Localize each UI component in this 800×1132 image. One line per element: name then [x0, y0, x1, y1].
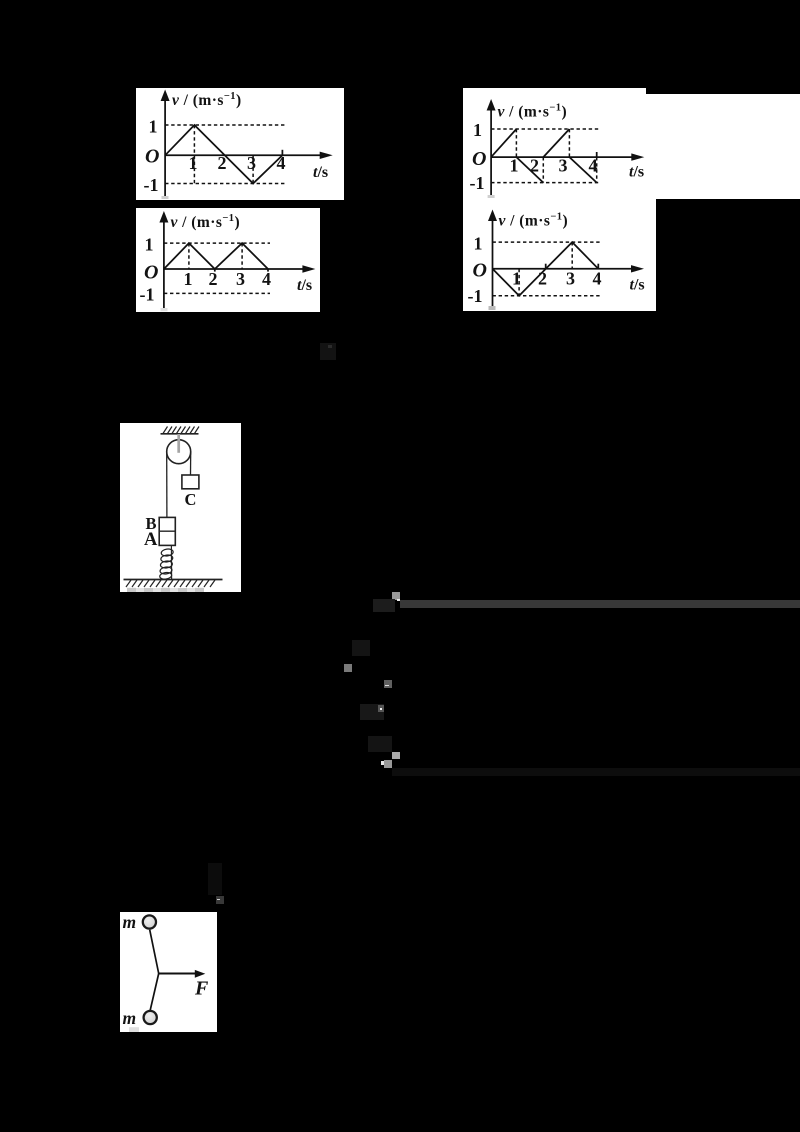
svg-text:2: 2 — [538, 269, 547, 289]
ceiling line with hatching — [160, 427, 199, 434]
svg-text:v / (m·s−1): v / (m·s−1) — [171, 213, 241, 231]
pulley support rod — [177, 434, 180, 453]
graph A: dashed guide lines at v=1, v=-1, t=1, t=3 — [165, 125, 285, 184]
graph A: t-axis (horizontal) — [165, 154, 326, 156]
graph A: axis number labels 1,-1,O,1,2,3,4 — [144, 117, 286, 195]
svg-text:3: 3 — [236, 269, 245, 289]
svg-text:t/s: t/s — [297, 277, 312, 294]
graph A: v-axis (vertical) — [164, 96, 166, 196]
string to bottom ball — [150, 973, 159, 1010]
svg-text:C: C — [184, 490, 196, 509]
spring coils — [159, 548, 173, 580]
svg-text:v / (m·s−1): v / (m·s−1) — [172, 91, 242, 109]
graph D: v-axis arrowhead — [488, 210, 497, 222]
svg-text:v / (m·s−1): v / (m·s−1) — [498, 103, 568, 121]
svg-text:4: 4 — [277, 153, 286, 173]
graph B: v-axis arrowhead — [487, 99, 496, 111]
svg-text:1: 1 — [145, 235, 154, 255]
svg-text:3: 3 — [566, 269, 575, 289]
svg-text:t/s: t/s — [630, 277, 645, 294]
force arrow F shaft — [159, 972, 197, 974]
svg-text:m: m — [123, 1007, 137, 1027]
graph B: v-axis (vertical) — [490, 105, 492, 195]
graph D: t-axis arrowhead — [631, 265, 644, 272]
graph D: t-axis (horizontal) — [493, 268, 638, 270]
svg-text:t/s: t/s — [629, 164, 644, 181]
white panel: two balls with force F figure — [120, 912, 217, 1032]
white panel: graph C (bottom-left) — [136, 208, 320, 312]
svg-text:2: 2 — [530, 156, 539, 176]
svg-text:4: 4 — [593, 269, 602, 289]
white panel: pulley figure — [120, 423, 241, 592]
graph C: t-axis arrowhead — [302, 265, 315, 272]
blocks B over A — [159, 517, 175, 545]
svg-text:2: 2 — [218, 153, 227, 173]
force arrow F head — [195, 969, 206, 977]
svg-text:-1: -1 — [468, 286, 483, 306]
svg-text:A: A — [144, 530, 158, 550]
svg-text:3: 3 — [247, 153, 256, 173]
string to top ball — [150, 929, 159, 973]
graph C: v-t curve triangles (0,0)-(1,1)-(2,0)-(3,1)-(4,0) — [164, 243, 268, 272]
graph D: axis number labels 1,-1,O,1,2,3,4 — [468, 234, 602, 307]
graph B: axis bottom gray scan tip — [488, 195, 495, 198]
svg-text:O: O — [144, 262, 158, 284]
floor line with hatching — [123, 580, 222, 588]
graph A: v-t curve (0,0)-(1,1)-(3,-1)-(4,0) with t=4 tick — [165, 125, 282, 184]
top ball m — [143, 915, 156, 928]
graph C: v-axis arrowhead — [159, 211, 168, 223]
bottom ball m — [144, 1010, 157, 1023]
graph B: t-axis arrowhead — [631, 153, 644, 160]
graph D: v-t curve (0,0)-(1,-1)-(3,1)-(4,0) with ticks — [493, 242, 599, 296]
graph A: axis bottom gray scan tip — [162, 196, 169, 199]
svg-text:1: 1 — [474, 234, 483, 254]
svg-text:v / (m·s−1): v / (m·s−1) — [499, 212, 569, 230]
svg-text:1: 1 — [189, 153, 198, 173]
svg-text:F: F — [194, 977, 209, 999]
graph B: axis number labels 1,-1,O,1,2,3,4 — [470, 120, 598, 193]
svg-text:4: 4 — [262, 269, 271, 289]
graph B: t-axis (horizontal) — [491, 156, 638, 158]
string right side (to block C) — [189, 452, 191, 475]
graph C: axis bottom gray scan tip — [161, 308, 168, 311]
svg-text:-1: -1 — [144, 175, 159, 195]
svg-text:3: 3 — [559, 156, 568, 176]
graph C: v-axis (vertical) — [163, 217, 165, 308]
svg-text:-1: -1 — [140, 285, 155, 305]
svg-text:1: 1 — [510, 156, 519, 176]
graph D: axis bottom gray scan tip — [489, 306, 496, 310]
white panel: graph A (top-left) — [136, 88, 344, 200]
white panel: right-side extension strip — [646, 94, 800, 199]
graph B: dashed guide lines at v=1, v=-1, t=1..4 — [491, 129, 599, 183]
svg-text:m: m — [123, 912, 137, 932]
pulley wheel — [166, 440, 190, 464]
svg-text:1: 1 — [512, 269, 521, 289]
svg-text:-1: -1 — [470, 173, 485, 193]
scan smudge cluster near (320,343) — [320, 343, 336, 360]
svg-text:1: 1 — [473, 120, 482, 140]
graph A: t-axis arrowhead — [320, 152, 333, 159]
graph C: dashed guide lines at v=1, v=-1, t=1, t=3 — [164, 243, 270, 293]
svg-text:1: 1 — [149, 117, 158, 137]
spring axis line — [170, 545, 172, 579]
scan noise below floor — [127, 588, 204, 593]
graph D: v-axis (vertical) — [492, 215, 494, 306]
svg-text:1: 1 — [184, 269, 193, 289]
block C — [181, 475, 198, 489]
graph C: t-axis (horizontal) — [164, 268, 309, 270]
svg-text:O: O — [472, 148, 486, 170]
graph B: sawtooth v-t segments — [491, 129, 597, 183]
svg-text:2: 2 — [209, 269, 218, 289]
svg-text:t/s: t/s — [313, 164, 328, 181]
svg-text:O: O — [473, 260, 487, 282]
svg-text:4: 4 — [589, 156, 598, 176]
string left side (to block B) — [165, 452, 167, 518]
graph A: v-axis arrowhead — [161, 90, 170, 102]
white panel: right column (graphs B and D) — [463, 88, 646, 311]
graph C: axis number labels 1,-1,O,1,2,3,4 — [140, 235, 272, 305]
scan noise at panel bottom — [129, 1027, 139, 1032]
graph D: dashed guide lines at v=1, v=-1, t=1, t=3 — [493, 242, 602, 296]
svg-text:O: O — [145, 146, 159, 168]
